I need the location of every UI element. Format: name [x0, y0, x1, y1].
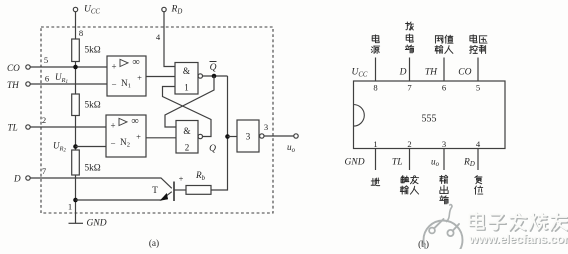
svg-text:2: 2 [42, 115, 46, 125]
svg-text:Q: Q [210, 63, 217, 73]
svg-text:∞: ∞ [131, 116, 139, 127]
svg-text:D: D [399, 68, 407, 78]
svg-text:CO: CO [458, 68, 471, 78]
svg-text:CO: CO [7, 63, 20, 73]
svg-text:&: & [183, 67, 191, 77]
svg-text:N2: N2 [120, 138, 130, 149]
svg-text:uo: uo [287, 142, 296, 154]
svg-text:www.elecfans.com: www.elecfans.com [468, 232, 568, 246]
svg-text:6: 6 [442, 83, 447, 93]
svg-text:3: 3 [442, 139, 446, 149]
svg-text:GND: GND [345, 157, 365, 167]
svg-text:D: D [13, 174, 21, 184]
svg-text:8: 8 [79, 28, 83, 38]
svg-text:T: T [152, 186, 158, 196]
svg-text:TL: TL [392, 157, 403, 167]
svg-text:6: 6 [45, 74, 50, 84]
svg-text:+: + [110, 121, 115, 131]
svg-text:7: 7 [42, 166, 47, 176]
svg-text:(a): (a) [149, 238, 159, 249]
svg-text:&: & [183, 127, 191, 137]
svg-text:TH: TH [425, 68, 438, 78]
svg-text:2: 2 [185, 143, 190, 153]
svg-text:5: 5 [476, 83, 480, 93]
svg-text:∞: ∞ [132, 57, 140, 68]
svg-text:555: 555 [422, 113, 437, 124]
svg-text:4: 4 [476, 139, 481, 149]
svg-text:+: + [111, 62, 116, 72]
svg-text:TH: TH [7, 80, 20, 90]
svg-text:+: + [136, 132, 141, 142]
svg-text:1: 1 [68, 202, 72, 212]
svg-text:3: 3 [246, 133, 251, 143]
svg-text:Q: Q [209, 144, 216, 154]
svg-text:Rb: Rb [195, 170, 206, 182]
svg-text:1: 1 [184, 83, 189, 93]
svg-text:+: + [137, 73, 142, 83]
svg-text:8: 8 [373, 83, 377, 93]
svg-text:1: 1 [373, 139, 377, 149]
svg-text:−: − [111, 80, 116, 90]
svg-text:RD: RD [463, 157, 475, 168]
svg-text:UCC: UCC [352, 68, 368, 79]
svg-text:+: + [179, 173, 184, 183]
svg-text:RD: RD [171, 5, 183, 16]
svg-text:4: 4 [156, 32, 161, 42]
svg-text:7: 7 [407, 83, 412, 93]
svg-text:2: 2 [407, 139, 411, 149]
svg-text:5: 5 [44, 55, 48, 65]
svg-text:3: 3 [264, 122, 268, 132]
svg-text:−: − [110, 139, 115, 149]
svg-text:TL: TL [8, 123, 18, 133]
svg-text:5kΩ: 5kΩ [85, 101, 101, 111]
svg-text:GND: GND [87, 219, 107, 229]
svg-text:uo: uo [431, 156, 440, 168]
svg-text:5kΩ: 5kΩ [85, 164, 101, 174]
svg-text:5kΩ: 5kΩ [85, 46, 101, 56]
svg-text:UCC: UCC [84, 5, 100, 16]
svg-text:UR2: UR2 [53, 141, 66, 154]
svg-text:N1: N1 [121, 79, 131, 90]
svg-text:UR1: UR1 [55, 72, 68, 85]
